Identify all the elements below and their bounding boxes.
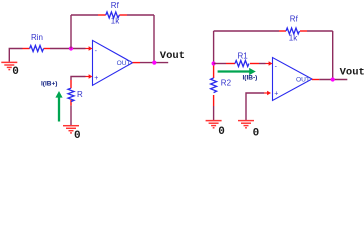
junction dot input node bbox=[212, 61, 216, 65]
wire: non-inverting input to ground G4 bbox=[246, 93, 264, 120]
svg-text:R1: R1 bbox=[238, 51, 249, 60]
svg-text:Rin: Rin bbox=[31, 33, 43, 42]
svg-text:+: + bbox=[274, 90, 278, 97]
op-amp U2 bbox=[273, 58, 313, 101]
junction dot at Vout tap bbox=[152, 61, 156, 65]
svg-text:OUT: OUT bbox=[296, 77, 310, 84]
svg-text:R: R bbox=[77, 90, 83, 99]
resistor Rf bbox=[98, 1, 127, 25]
wire: R2 bottom to ground G3 bbox=[213, 106, 215, 120]
svg-text:Rf: Rf bbox=[290, 15, 299, 24]
wire: non-inverting input run to R, y=76.5 bbox=[71, 77, 86, 81]
wire: feedback right vertical x=154 down to output bbox=[153, 15, 155, 63]
svg-text:0: 0 bbox=[74, 130, 81, 138]
svg-text:+: + bbox=[94, 75, 98, 82]
resistor Rf (right) bbox=[279, 15, 307, 43]
svg-text:Vout: Vout bbox=[340, 66, 364, 78]
wire: left vertical of input network x=213.6 bbox=[213, 31, 215, 64]
wire: feedback left vertical x=71 bbox=[70, 15, 72, 49]
ground 0 (G4) bbox=[238, 121, 254, 128]
ground 0 (G3) bbox=[206, 121, 222, 128]
resistor R2 (vertical to ground) x=213.6 bbox=[211, 66, 232, 107]
wire: R bottom to ground G2 bbox=[70, 106, 72, 125]
wire: feedback top run y=15 bbox=[71, 14, 154, 16]
resistor R (vertical) bbox=[68, 80, 83, 106]
svg-text:0: 0 bbox=[253, 128, 260, 138]
svg-text:0: 0 bbox=[12, 66, 19, 78]
resistor Rin bbox=[23, 33, 51, 51]
svg-text:I(IB-): I(IB-) bbox=[243, 74, 258, 81]
current marker I(IB-) green arrow bbox=[218, 68, 256, 75]
wire: feedback right vertical x=332.7 bbox=[332, 31, 334, 80]
junction dot at Vout tap (right) bbox=[331, 77, 335, 81]
svg-text:R2: R2 bbox=[221, 78, 232, 87]
svg-text:I(IB+): I(IB+) bbox=[41, 81, 57, 88]
wire: input net from ground G1 to op-amp U1 minus, row y=48.5 bbox=[9, 49, 85, 62]
pin arrow: U2 non-inverting input bbox=[264, 91, 271, 95]
svg-text:1k: 1k bbox=[111, 17, 120, 26]
pin arrow: U1 inverting input bbox=[86, 46, 93, 50]
svg-text:1k: 1k bbox=[289, 33, 298, 42]
op-amp U1 bbox=[93, 40, 133, 85]
node A junction dot (feedback tap on inverting input) bbox=[69, 46, 73, 50]
wire: feedback top run y=31 bbox=[214, 30, 333, 32]
svg-text:Rf: Rf bbox=[111, 1, 120, 10]
ground 0 (G1) bbox=[1, 62, 17, 69]
pin arrow: U1 non-inverting input bbox=[86, 74, 93, 78]
ground 0 (G2) bbox=[63, 126, 79, 133]
wire: output net of U2, y=79.5 bbox=[312, 79, 347, 81]
svg-text:0: 0 bbox=[218, 126, 225, 138]
pin arrow: U2 inverting input bbox=[266, 61, 273, 65]
svg-text:OUT: OUT bbox=[117, 60, 131, 67]
current marker I(IB+) green arrow bbox=[55, 91, 62, 122]
wire: output net of U1, y=62.6 bbox=[133, 62, 169, 64]
svg-text:Vout: Vout bbox=[160, 50, 185, 62]
resistor R1 (series input) row y=63.5 bbox=[214, 51, 266, 66]
